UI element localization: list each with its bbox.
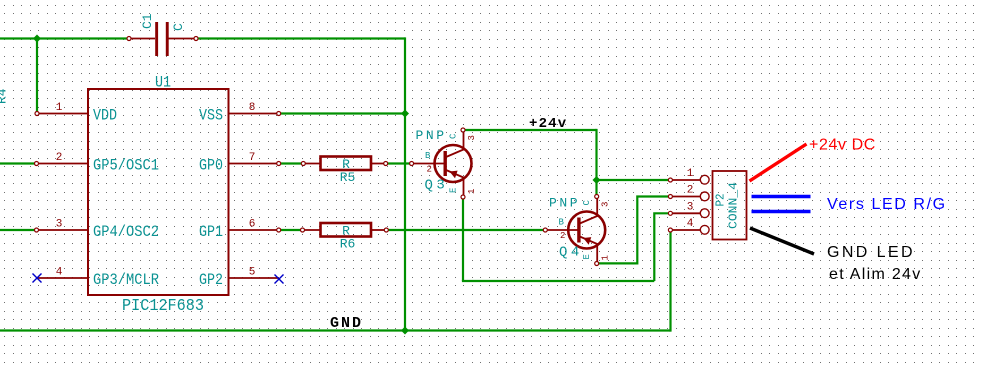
svg-text:3: 3: [601, 202, 611, 207]
svg-text:2: 2: [56, 152, 63, 164]
svg-text:R4: R4: [0, 88, 10, 104]
svg-text:4: 4: [687, 218, 694, 230]
wire +24v node to P2 pin 1: [597, 179, 671, 181]
svg-text:CONN_4: CONN_4: [727, 182, 741, 229]
resistor R6: [301, 223, 389, 237]
wire input to U1 GP5/OSC1: [0, 162, 37, 164]
svg-text:1: 1: [56, 102, 63, 114]
U1 pin 2 GP5/OSC1: [35, 152, 160, 175]
svg-text:GP1: GP1: [199, 223, 223, 241]
svg-text:8: 8: [249, 102, 256, 114]
U1 pin 3 GP4/OSC2: [35, 219, 160, 242]
svg-text:4: 4: [56, 267, 63, 279]
svg-text:7: 7: [249, 152, 256, 164]
annotation black line to GND LED: [750, 228, 814, 254]
svg-text:B: B: [425, 151, 431, 161]
wire U1 VSS to GND vertical: [279, 112, 405, 114]
P2 pin 4: [668, 218, 709, 234]
wire R5 to Q3 base: [386, 162, 412, 164]
wire VDD rail down to U1 pin 1: [36, 39, 38, 114]
svg-text:B: B: [559, 218, 565, 228]
IC U1 body: [88, 89, 229, 295]
svg-text:GND: GND: [330, 315, 363, 332]
wire input to U1 GP4/OSC2: [0, 229, 37, 231]
P2 pin 1: [668, 168, 709, 184]
svg-text:GP2: GP2: [199, 271, 223, 289]
svg-text:PNP: PNP: [416, 128, 447, 143]
junction GND rail / GND vertical: [401, 327, 409, 335]
svg-text:C1: C1: [140, 13, 155, 29]
svg-text:3: 3: [687, 202, 694, 214]
capacitor C1: [127, 22, 198, 56]
svg-text:+24v: +24v: [529, 116, 567, 132]
wire U1 GP0 to R5: [279, 162, 304, 164]
wire GND vertical (C1 to GND rail): [404, 37, 406, 330]
transistor Q3 (PNP): [410, 128, 472, 199]
svg-text:PNP: PNP: [549, 196, 580, 211]
svg-text:Vers LED R/G: Vers LED R/G: [827, 196, 947, 213]
svg-text:Q3: Q3: [425, 178, 449, 194]
svg-text:Q4: Q4: [559, 245, 583, 261]
svg-text:C: C: [582, 200, 592, 206]
wire Q3 collector to +24v corner: [463, 129, 597, 131]
svg-text:2: 2: [687, 185, 694, 197]
U1 pin 8 VSS: [199, 102, 281, 125]
svg-text:GP4/OSC2: GP4/OSC2: [93, 223, 159, 241]
svg-text:1: 1: [601, 255, 611, 260]
svg-text:6: 6: [249, 219, 256, 231]
svg-text:PIC12F683: PIC12F683: [122, 297, 204, 316]
no-connect X on U1 pin 4: [33, 274, 42, 283]
svg-text:C: C: [171, 23, 186, 31]
svg-text:GP5/OSC1: GP5/OSC1: [93, 157, 159, 175]
no-connect X on U1 pin 5: [275, 275, 284, 284]
U1 pin 4 GP3/MCLR: [37, 267, 159, 290]
connector P2 body: [713, 171, 747, 240]
wire R6 to Q4 base: [386, 229, 545, 231]
svg-text:R6: R6: [340, 237, 356, 252]
P2 pin 3: [668, 202, 709, 218]
P2 pin 2: [668, 185, 709, 201]
svg-text:P2: P2: [714, 194, 728, 207]
svg-text:U1: U1: [155, 74, 171, 92]
svg-text:2: 2: [427, 165, 432, 175]
junction +24v node / P2 pin 1 branch: [593, 176, 601, 184]
wire GND rail bottom: [0, 329, 671, 331]
svg-text:5: 5: [249, 267, 256, 279]
wire Q4 emitter to P2 pin 2: [597, 197, 670, 264]
junction VSS / GND vertical: [401, 110, 409, 118]
junction VDD rail / pin1 branch: [33, 35, 41, 43]
svg-text:R5: R5: [340, 170, 356, 185]
U1 pin 7 GP0: [199, 152, 281, 175]
U1 pin 5 GP2: [199, 267, 279, 290]
wire C1 right side to GND vertical: [196, 37, 405, 39]
svg-text:2: 2: [560, 231, 565, 241]
resistor R5: [301, 157, 387, 171]
svg-text:3: 3: [56, 219, 63, 231]
svg-text:et Alim 24v: et Alim 24v: [829, 266, 922, 283]
annotation blue line lower: [752, 210, 811, 214]
svg-text:1: 1: [467, 189, 477, 194]
wire GND rail up to P2 pin 4: [669, 230, 671, 332]
wire Q3 emitter run right: [462, 280, 654, 282]
svg-text:GP0: GP0: [199, 157, 223, 175]
svg-text:E: E: [449, 188, 459, 193]
wire +24v down to Q4 collector: [595, 129, 597, 197]
annotation blue line upper: [752, 195, 811, 199]
wire U1 GP1 to R6: [279, 229, 303, 231]
wire up to P2 pin 3: [654, 213, 670, 281]
svg-text:C: C: [449, 133, 459, 139]
svg-text:VSS: VSS: [199, 107, 223, 125]
wire Q3 emitter down: [462, 197, 464, 281]
annotation red line to +24v DC: [750, 144, 807, 181]
svg-text:+24v DC: +24v DC: [809, 137, 876, 154]
U1 pin 6 GP1: [199, 219, 281, 242]
transistor Q4 (PNP): [543, 195, 605, 266]
svg-text:1: 1: [687, 168, 694, 180]
svg-text:3: 3: [467, 135, 477, 140]
wire VDD rail top left: [0, 37, 129, 39]
U1 pin 1 VDD: [35, 102, 117, 125]
svg-text:VDD: VDD: [93, 107, 117, 125]
svg-text:GP3/MCLR: GP3/MCLR: [93, 271, 159, 289]
svg-text:GND LED: GND LED: [827, 244, 915, 261]
svg-text:E: E: [582, 254, 592, 259]
